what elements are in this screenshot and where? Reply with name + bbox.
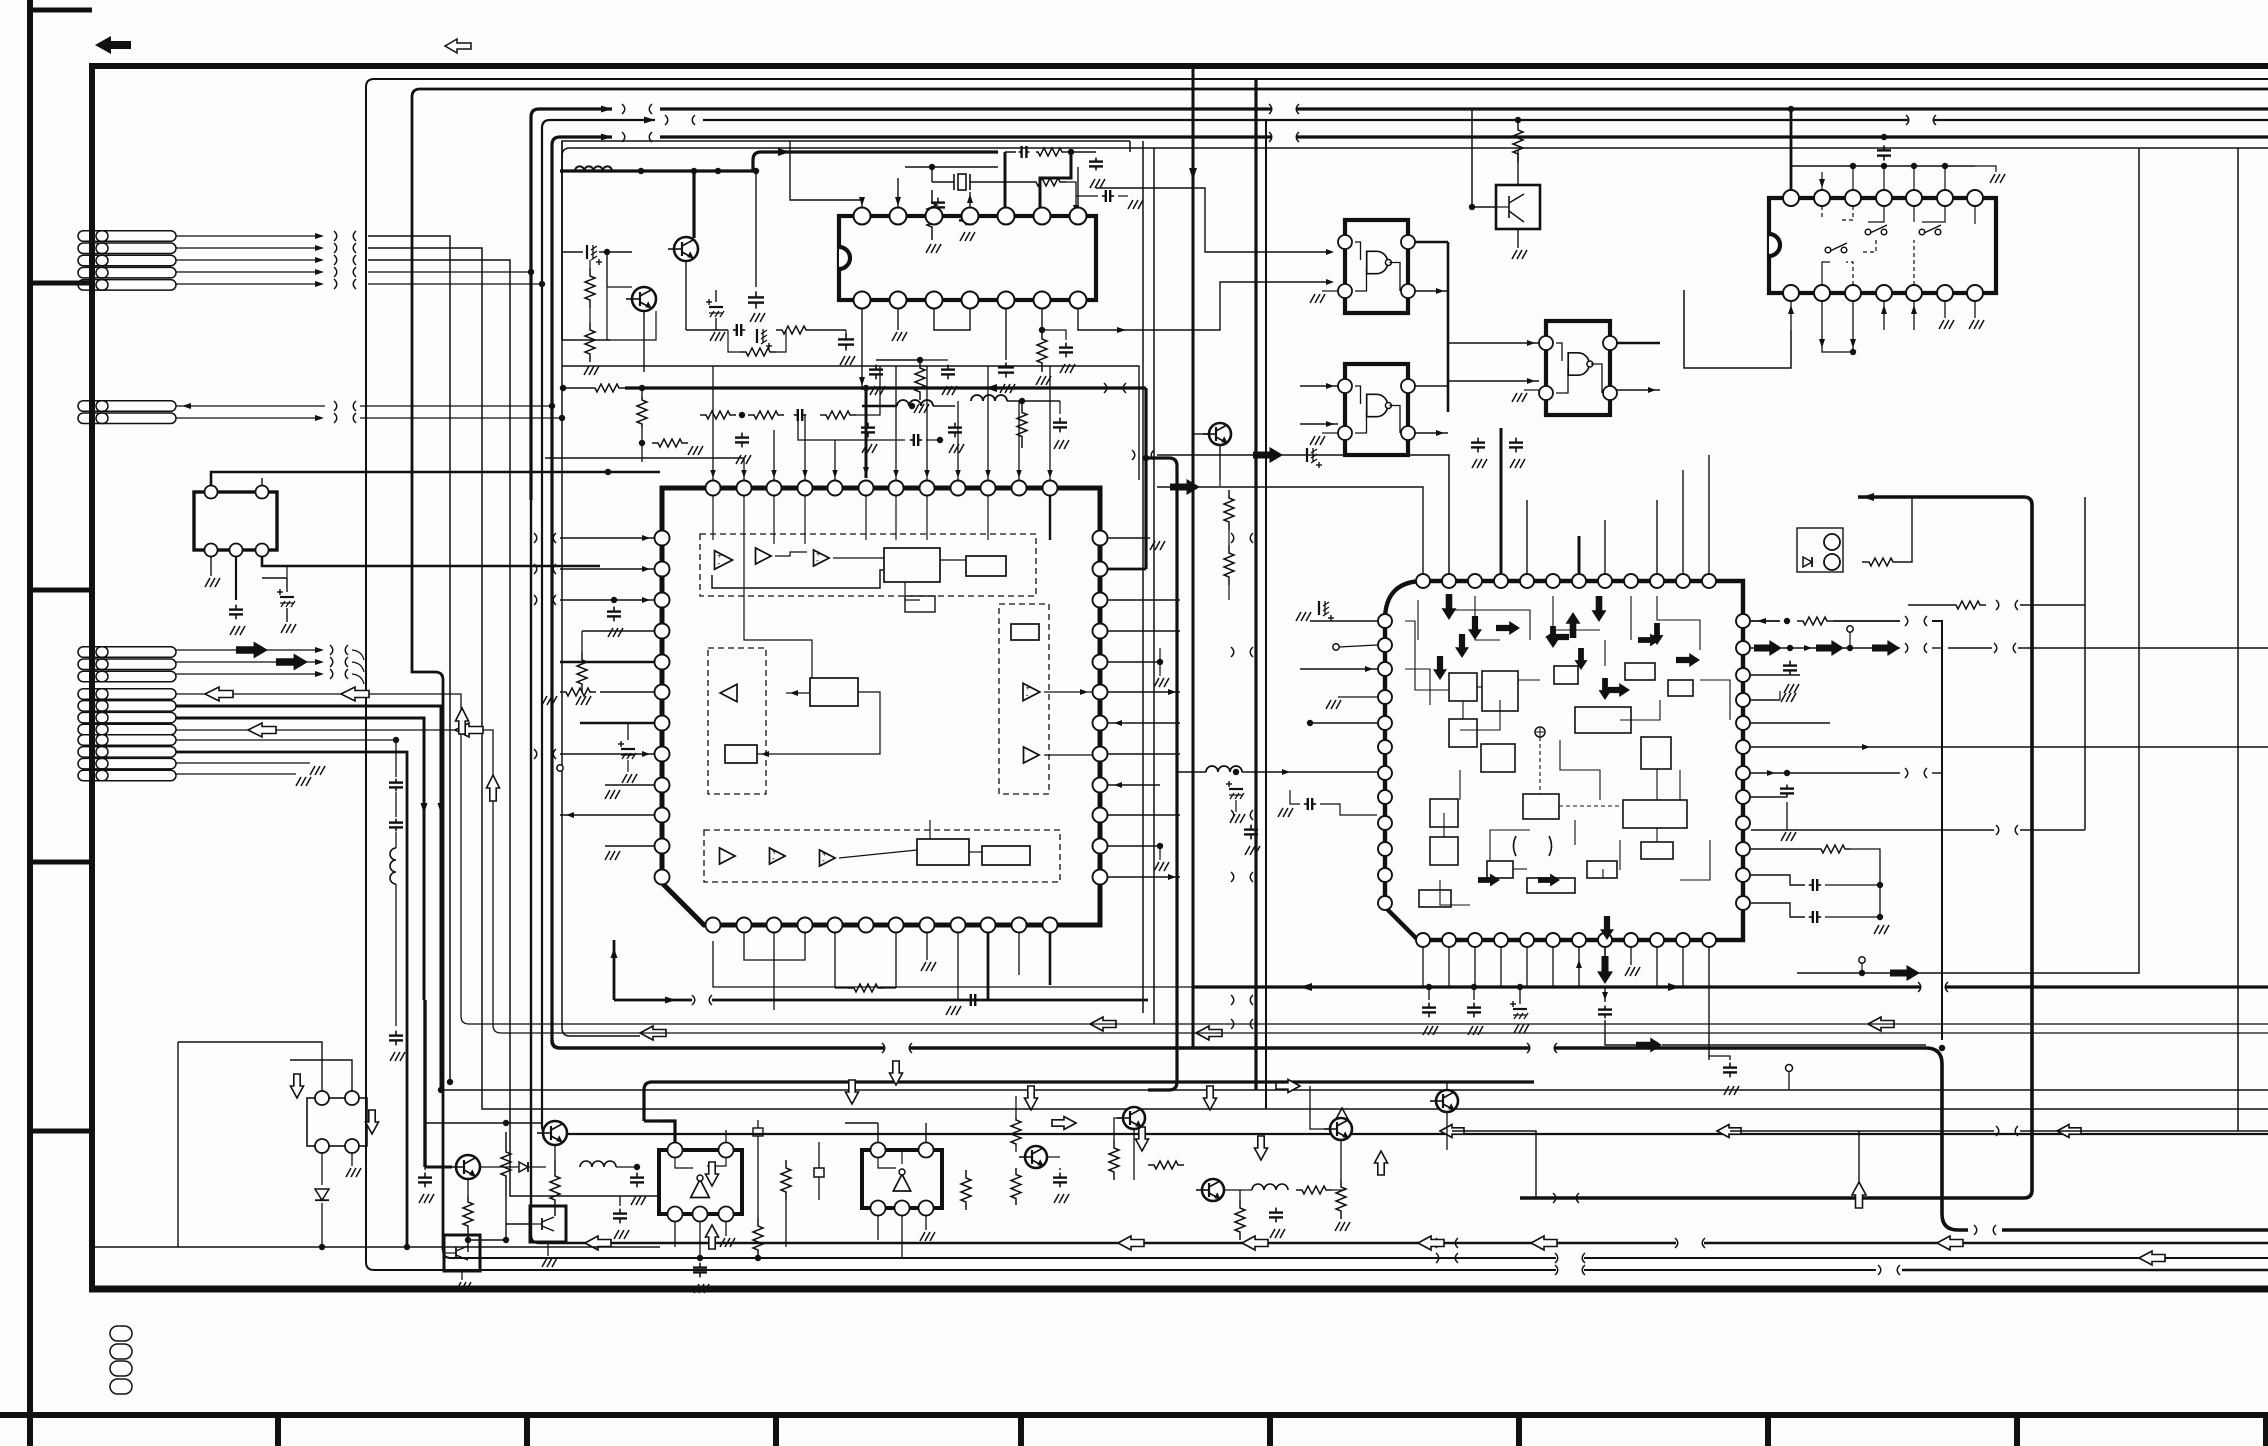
IC C internal boxes cluster [1449,673,1477,701]
Q5 wiring [425,1122,543,1124]
ecap below-left of IC B [621,748,635,750]
thick feed to Q1 [692,171,695,238]
bottom row rail [1015,1082,1017,1096]
IC D pins bottom [1783,285,1799,301]
svg-text:-: - [772,853,775,863]
page ruler bottom [0,1412,2268,1418]
box transistor Q6 [530,1206,566,1242]
thin outline y366 [562,366,1139,480]
wire exit to gate U2 [1096,188,1332,252]
cap C3 [755,291,757,297]
xtal X2 [814,1168,824,1177]
y1090 rail [441,1089,2268,1091]
R3 h + trim [686,329,728,331]
misc vertical feeds to IC B top pins [712,366,714,480]
IC B internal box top [884,548,940,582]
thick jog to pin6 [1040,152,1071,212]
gate IC U4 [1539,321,1617,415]
right vertical thick x2032 [1858,497,2032,505]
IC B bottom pin wires [713,941,1193,987]
CN5 wires [176,739,396,741]
IC C parens [1514,836,1517,856]
bus wire y109 [531,109,612,500]
IC C extra fat arrows [1468,616,1482,640]
right vertical x2085 [2084,497,2086,830]
IC A pin top wires [790,141,862,208]
K1 electrolytic [280,596,294,598]
IC B right pin wires [1108,537,1150,539]
relay box K1 [194,486,277,557]
K1 wires [211,472,660,486]
vertical wire x510 [368,260,660,1196]
thin outline drop x1130 [1129,141,1131,152]
IC A pins bottom [854,292,871,309]
CN1 r4 r5 stubs [368,271,531,273]
thick drop x425 [423,1000,426,1167]
box transistor Q7 [444,1235,480,1271]
diode D2 [315,1189,329,1200]
IC B pins right [1093,531,1108,546]
thin frame line x562 down [561,141,563,340]
thick wire y1082 from right [644,1082,1534,1121]
thick channel pair [1254,79,1257,1090]
IC C plus node [1535,727,1545,737]
open arrows on y1243 [1118,1236,1144,1250]
bottom right corner curves [2100,1198,2112,1243]
gate IC U3 [1338,364,1415,455]
IC B internal bottom dashed block [704,830,1060,882]
IC B left pin external wires [560,537,654,539]
thick drop to pin5 [1004,152,1007,212]
right vertical x2238 [2237,148,2239,1131]
left vertical bus x443 to bottom [443,1250,1556,1258]
transistor Q3 channel [1209,423,1231,445]
thick rail y388 [563,387,589,389]
transistor Q8 [1025,1146,1047,1168]
res R4 [927,190,937,240]
IC B pins left [655,531,670,546]
connector CN3 (3 pins) [78,647,176,682]
cap left of U6 col [619,1209,621,1214]
U4 wires [1500,342,1539,344]
IC B internal connect lines [712,496,714,540]
thick rail riser x753 [753,152,998,171]
IC D internal switches [1825,247,1831,253]
breaks in channel [1231,533,1234,543]
svg-text:-: - [1026,690,1029,700]
cap C4 [845,333,847,339]
bus wire y137 [552,137,612,1040]
cap C5 [1102,195,1106,197]
IC A body [839,216,1096,300]
open arrows bottom mid [1025,1086,1038,1110]
Q8 wires [1011,1118,1021,1146]
U6 wires [660,1121,675,1142]
left vertical bus x542 bottom [542,500,2268,1134]
connector box K2 [307,1091,367,1153]
IC C body [1385,581,1743,940]
CN2 wires [176,405,325,407]
IC B internal left dashed block [708,648,766,794]
page ruler left [27,0,33,1446]
U2-U4 interconnect [1447,242,1450,412]
IC B body [662,488,1100,925]
transistor Q4 [456,1155,480,1179]
K1 cap [235,605,237,610]
connector CN4 (4 pins) [78,689,176,735]
cap C2 pol [709,306,723,308]
IC D loop wires [1684,290,1791,368]
left vertical bus x531 bottom [531,500,1676,1243]
crystal X1 [958,174,966,190]
bus wire y148 [562,148,2268,1028]
IC C internal fat arrows [1442,594,1457,620]
res R5 h [1030,178,1066,186]
bus wire y120 [542,120,655,500]
transistor Q2 [632,287,656,311]
IC C pins right [1736,614,1750,628]
res stack near U7 [781,1160,791,1200]
ladder row y415 [700,411,736,419]
thick rail y171 [560,169,753,172]
Q2 base link [607,286,632,288]
connector CN1 (5 pins) [78,231,176,290]
left vertical bus x366 to bottom [366,1060,1556,1270]
caps under IC C [1428,1003,1430,1008]
caps above IC A [937,198,939,203]
ecap C1 [586,245,588,259]
IC C internal routing wires [1405,621,1449,690]
coil into IC C pin row [1177,771,1206,773]
IC C right pin wires [1751,620,1780,622]
svg-text:-: - [822,855,825,865]
connector CN5 (4 pins) [78,735,176,781]
K2 wires [178,1042,322,1091]
IC B internal opamps top [715,551,733,570]
IC C pins left [1378,614,1392,628]
CN4 wires [176,694,461,1016]
IC D body [1769,198,1996,293]
IC B internal right dashed block [999,604,1049,794]
xtal small right [753,1128,763,1136]
rc cluster under IC A [876,359,920,361]
U2 wires [1326,249,1334,255]
IC C internal links [1477,686,1482,688]
row y648 right continuation [1948,647,1992,649]
IC C pins top [1416,574,1430,588]
IC D feeds [1790,109,1793,190]
page arrow top-left [95,36,131,54]
right small rows [1950,601,1986,609]
opto isolator U5 [1496,185,1540,229]
vertical wire x482 [368,248,2268,1109]
IC D cap top [1883,145,1885,150]
rail continuation thin [1005,151,1016,153]
transistor Q9 [1123,1107,1145,1129]
IC D pins top [1783,190,1799,206]
channel verticals [1144,388,1147,569]
svg-text:-: - [717,558,720,568]
U7 wires [877,1123,879,1142]
IC A pin bottom wires [861,308,863,390]
resistor R2 [585,322,595,362]
IC C left pin wires [1310,620,1377,622]
page arrow top-center (open) [445,39,471,53]
IC A pins top [854,208,871,225]
bus wire y89 [412,89,2268,1250]
right vertical thin x2139 [1980,148,2139,973]
U5 wires [1517,150,1519,185]
U3 wires [1300,385,1338,387]
CN3 wires with fat arrows [176,649,318,651]
IC B pins bottom [706,918,721,933]
vertical wire x450 [368,236,450,1082]
resistor R1 [585,268,595,308]
open arrows y1024 y1033 [640,1026,666,1040]
left vertical bus x552 thick bottom [552,1040,884,1048]
fat arrow down pin column 1605 [1604,948,1606,960]
breaks bottom right [1553,1193,1556,1203]
inverter IC U6 [659,1143,742,1222]
IC C pins bottom [1416,933,1430,947]
left vertical bus x562 bottom [562,1028,640,1036]
transistor Q1 [674,237,698,261]
right row y830 [1751,829,1994,831]
transistor Q11 [1330,1118,1352,1140]
bias network box outline [562,141,1130,340]
IC D top rail [1791,165,1975,167]
cap at IC A corner [1095,158,1097,162]
caps under gate area [1477,438,1479,443]
IC C surroundings top [1157,455,1449,573]
IC D bottom wires [1790,301,1792,330]
thick wire x1177 [1143,455,1149,461]
CN1 wires [176,235,318,237]
Q1 Q2 wiring [643,311,645,360]
bottom thin rail y1247 [92,1246,660,1248]
channel caps [1250,825,1252,830]
IC B internal dashed block top [700,534,1036,596]
revision marker pills [110,1326,132,1341]
transistor Q5 [543,1121,567,1145]
coil cluster above IC B [897,400,933,406]
transistor Q12 [1436,1090,1458,1112]
open arrow up x1859 [1858,1131,1860,1200]
connector CN2 (2 pins) [78,401,176,424]
IC C bottom pin wires [1422,948,1424,987]
IC B internal center box [810,678,858,706]
res right of U6 [753,1218,763,1258]
IC B pins top [706,481,721,496]
photo coupler right [1797,528,1843,572]
thick bus under IC C [1193,985,1920,988]
Q4 wiring [424,1173,426,1178]
bus wire y79 [366,79,2268,1060]
gate IC U2 [1338,220,1415,313]
left res cluster above IC B [637,396,647,428]
transistor Q10 [1202,1179,1224,1201]
svg-text:-: - [816,555,819,565]
regulator IC U7 [862,1143,942,1216]
